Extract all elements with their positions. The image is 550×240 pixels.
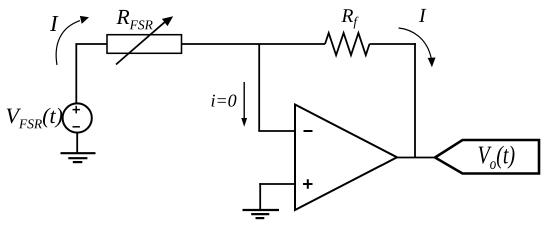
voltage source plus sign	[73, 106, 80, 114]
wire from Rf to top-right corner	[370, 43, 416, 45]
current I arrow (left, curved)	[56, 16, 89, 65]
wire from RFSR to Rf zigzag	[182, 43, 326, 45]
label V_FSR(t)	[7, 108, 63, 129]
label R_FSR	[116, 10, 152, 30]
wire right vertical down to output node	[414, 43, 416, 157]
wire op-amp output to flag	[397, 157, 436, 159]
voltage source V_FSR circle	[63, 103, 92, 132]
label V_o(t)	[479, 146, 515, 170]
i=0 arrow (down)	[241, 82, 247, 127]
wire top horizontal from corner to resistor RFSR	[75, 43, 107, 45]
wire below source to ground	[76, 133, 78, 153]
resistor Rf zigzag	[325, 33, 370, 55]
op-amp U1 triangle	[295, 105, 397, 211]
wire inverting branch horizontal to minus input	[258, 130, 295, 132]
wire inverting branch vertical	[258, 44, 260, 131]
output flag V_o(t)	[435, 140, 539, 174]
label I (right)	[419, 9, 427, 22]
ground under source	[61, 153, 96, 162]
wire top-left vertical from source to top corner	[75, 44, 77, 104]
label R_f	[341, 9, 358, 28]
voltage source minus sign	[73, 126, 80, 128]
label I (left)	[50, 16, 59, 31]
current I arrow (right, curved)	[399, 28, 436, 67]
wire plus input horizontal	[259, 183, 295, 185]
wire plus branch vertical down to ground	[259, 183, 261, 210]
op-amp plus sign	[303, 179, 313, 189]
label i=0	[212, 95, 237, 107]
op-amp minus sign	[304, 130, 313, 132]
resistor R_FSR body (box)	[107, 35, 182, 54]
ground at op-amp plus input	[243, 210, 280, 218]
variable resistor diagonal arrow	[116, 16, 173, 64]
